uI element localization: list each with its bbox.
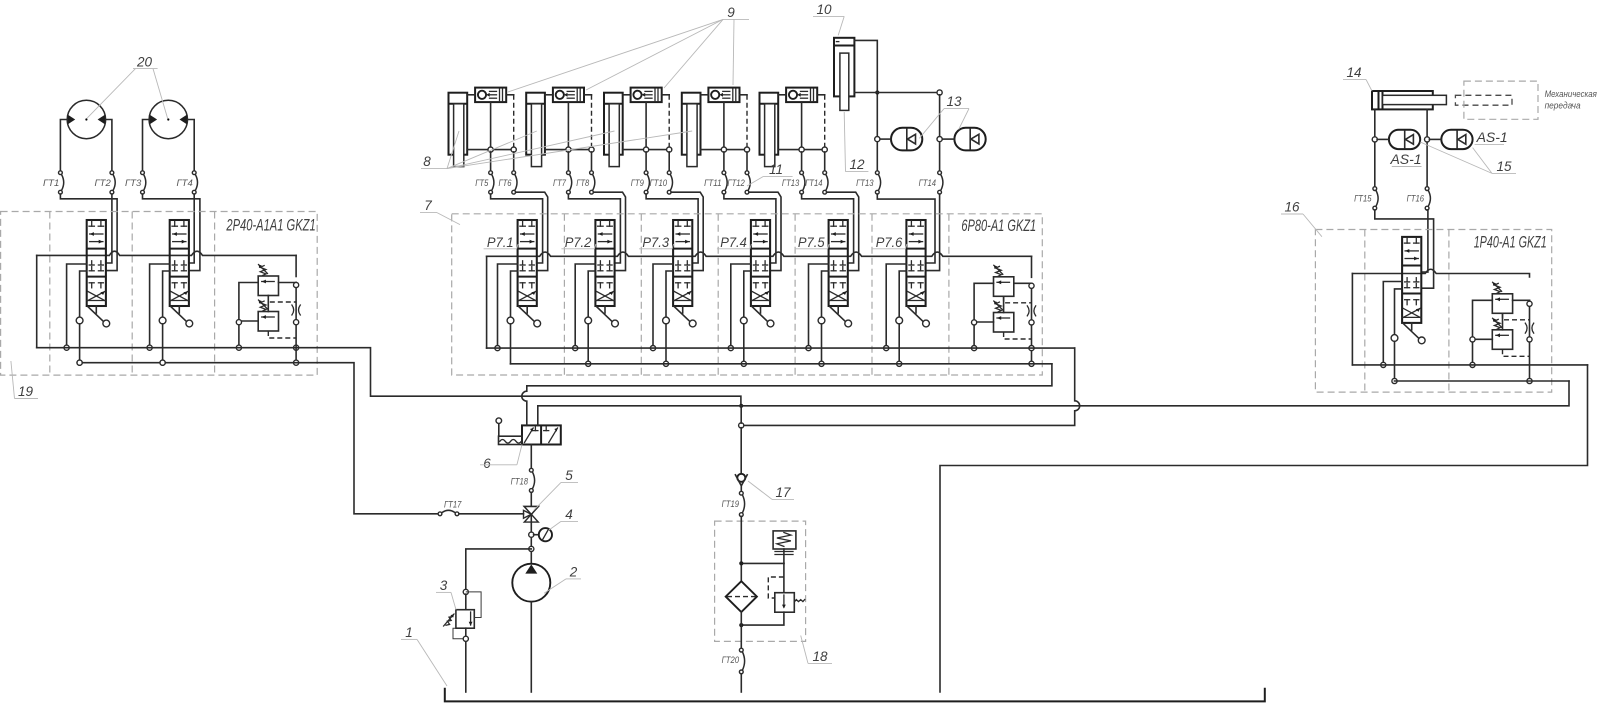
coupling ГТ4 (177, 171, 198, 194)
svg-text:ГТ13: ГТ13 (782, 178, 800, 189)
valve P7.4 lines to galleries (728, 264, 751, 366)
wire ГТ15 to valve R3 (1375, 210, 1434, 288)
labels ГТ7 ГТ8 (553, 178, 590, 189)
coupling ГТ14 (accumulator line) (919, 171, 943, 194)
dashed enclosure block 16 (1P40-A1 GKZ1) (1315, 230, 1551, 393)
svg-text:3: 3 (440, 578, 448, 593)
svg-text:1: 1 (405, 625, 413, 640)
shutoff valve 5 (524, 507, 539, 523)
coupling ГТ2 (95, 171, 116, 194)
coupling ГТ19 (722, 491, 745, 516)
relief 1P40 connections (1470, 301, 1532, 383)
svg-text:6: 6 (483, 456, 491, 471)
svg-text:ГТ2: ГТ2 (95, 178, 112, 189)
svg-text:ГТ14: ГТ14 (919, 178, 936, 189)
svg-text:ГТ7: ГТ7 (553, 178, 567, 189)
wire ГТ1 to valve R1 (60, 194, 117, 271)
wire 6P80 internal supply gallery (487, 252, 1032, 348)
dashed enclosure block 19 (2P40-A1A1 GKZ1) (1, 212, 318, 376)
wire ГТ14 to section P7.6 (926, 194, 940, 271)
svg-text:ГТ17: ГТ17 (444, 500, 462, 511)
relief 6P80 connections (972, 256, 1035, 366)
svg-text:14: 14 (1346, 65, 1361, 80)
wire ГТ2 to valve R1 (106, 194, 112, 263)
svg-text:ГТ13: ГТ13 (856, 178, 874, 189)
directional valve section P7.4 (717, 220, 774, 327)
coupling ГТ15 (1354, 187, 1378, 210)
wire ГТ20 to tank (740, 674, 742, 692)
pressure gauge 4 (534, 528, 552, 541)
labels ГТ5 ГТ6 (475, 178, 512, 189)
wire ГТ18 to shutoff valve 5 (530, 492, 532, 506)
label 7 with leader (420, 198, 460, 225)
directional valve R2 in 2P40 block (170, 220, 193, 327)
svg-text:11: 11 (769, 162, 783, 177)
wire 2P40 internal supply gallery (37, 251, 296, 348)
directional valve section P7.6 (872, 220, 929, 327)
wire 2P40 bus1 to common return (317, 348, 743, 408)
label 3 with leader (436, 578, 456, 610)
wire 6P80 bus2 to control valve 6 port A (527, 364, 1052, 386)
svg-text:6P80-A1 GKZ1: 6P80-A1 GKZ1 (961, 217, 1036, 235)
common return line to right block (741, 381, 1569, 406)
directional valve section P7.1 (484, 220, 541, 327)
label 2P40-A1A1 GKZ1 (226, 217, 316, 235)
valve P7.2 lines to galleries (573, 264, 596, 366)
hydraulic cylinder C5 (pos 8) with pilot check valve (pos 9) (760, 88, 829, 195)
directional valve R1 in 2P40 block (87, 220, 110, 327)
dashed enclosure filter unit 18 (715, 521, 806, 641)
wire valve 6 to coupling ГТ18 (530, 445, 532, 469)
wire ГТ4 to valve R2 (189, 194, 194, 263)
hydraulic cylinder C3 (pos 8) with pilot check valve (pos 9) (604, 88, 673, 195)
wire 6P80 bus1 to filter return node (739, 348, 1080, 428)
wire cylinder 14 piston-side port down (1425, 109, 1430, 186)
wire 1P40 bus1 to tank (940, 365, 1588, 692)
svg-text:ГТ12: ГТ12 (727, 178, 745, 189)
hydraulic cylinder C1 (pos 8) with pilot check valve (pos 9) (449, 88, 518, 195)
directional valve section P7.5 (795, 220, 852, 327)
wire couplings pair 2 down to section P7.2 (568, 192, 625, 270)
wire to ГТ19 (740, 486, 742, 491)
valve P7.6 lines to galleries (884, 264, 907, 366)
accumulator A2 (pos 13) (937, 128, 986, 151)
2P40 return bus (bus1) (37, 347, 318, 349)
svg-text:P7.6: P7.6 (876, 235, 903, 250)
wire 2P40 bus2 to pump line via ГТ17 (317, 363, 438, 514)
valve R1 work-port lines to gallery (64, 264, 87, 365)
directional valve section P7.2 (561, 220, 618, 327)
wire couplings pair 1 down to section P7.1 (491, 192, 548, 270)
label 9 with leaders to check valves (508, 5, 749, 92)
svg-text:5: 5 (565, 468, 573, 483)
wire valve 6 port B to common return line (538, 406, 741, 426)
label 14 with leader (1343, 65, 1372, 91)
control valve 6 (2-position, lever operated) (496, 418, 561, 445)
label Механическая передача (1545, 89, 1597, 111)
svg-text:2P40-A1A1 GKZ1: 2P40-A1A1 GKZ1 (226, 217, 316, 235)
svg-text:13: 13 (946, 94, 962, 109)
coupling ГТ1 (43, 171, 64, 194)
wire couplings pair 4 down to section P7.4 (724, 192, 781, 270)
coupling ГТ18 (511, 468, 535, 492)
svg-text:ГТ14: ГТ14 (805, 178, 822, 189)
filter element (726, 581, 757, 612)
relief valve 3 (456, 589, 474, 628)
svg-text:4: 4 (565, 507, 573, 522)
wire couplings pair 5 down to section P7.5 (802, 192, 859, 270)
svg-text:17: 17 (775, 485, 791, 500)
svg-text:ГТ19: ГТ19 (722, 499, 740, 510)
filter bypass valve with spring (739, 561, 805, 627)
dashed enclosure mechanical transmission (1464, 81, 1538, 119)
label 6P80-A1 GKZ1 (961, 217, 1036, 235)
label 20 with leaders to motors (87, 55, 168, 119)
svg-text:ГТ3: ГТ3 (125, 178, 142, 189)
wire couplings pair 3 down to section P7.3 (646, 192, 703, 270)
dashed mechanical transmission link (1455, 95, 1512, 105)
label 15 with leaders (1420, 142, 1516, 174)
svg-text:Механическая: Механическая (1545, 89, 1597, 99)
accumulator A1 (pos 13) (875, 128, 923, 151)
svg-text:ГТ4: ГТ4 (177, 178, 193, 189)
label 17 with leader (748, 481, 794, 500)
pump suction line to tank (530, 602, 532, 692)
wire 1P40 supply gallery (1352, 269, 1529, 365)
label 10 with leader (813, 2, 844, 35)
svg-text:AS-1: AS-1 (1389, 151, 1421, 167)
accumulator AS-1 left (pos 15) (1377, 130, 1421, 167)
6P80 tank bus (bus2) (511, 363, 1052, 365)
label 8 with leaders to cylinders (421, 131, 692, 169)
labels ГТ11 ГТ12 (704, 178, 745, 189)
svg-text:ГТ5: ГТ5 (475, 178, 489, 189)
wire cylinder 10 bottom port to ГТ14 (854, 90, 942, 171)
relief valve assembly in 2P40 block (239, 265, 300, 339)
svg-text:P7.2: P7.2 (565, 235, 592, 250)
directional valve R3 in 1P40 block (1402, 237, 1425, 344)
svg-text:2: 2 (569, 565, 578, 580)
2P40 tank bus (bus2) (77, 360, 317, 365)
svg-text:20: 20 (136, 55, 153, 70)
label 12 with leader (844, 112, 868, 172)
svg-text:15: 15 (1496, 159, 1512, 174)
valve R2 work-port lines to gallery (147, 264, 170, 365)
label 6 with leader (480, 445, 522, 472)
wire cylinder 10 head port to ГТ13 (854, 40, 879, 170)
plunger cylinder (pos 10/12) (834, 38, 854, 111)
wire valve 6 port A up to bus (522, 386, 527, 426)
wire cylinder 14 rod-side port down (1372, 109, 1377, 186)
svg-text:ГТ20: ГТ20 (722, 655, 740, 666)
label 11 with leader (747, 162, 793, 186)
svg-text:19: 19 (18, 384, 34, 399)
svg-text:P7.5: P7.5 (798, 235, 825, 250)
relief 3 internals (444, 592, 482, 692)
valve P7.1 lines to galleries (495, 264, 518, 364)
svg-text:ГТ15: ГТ15 (1354, 194, 1372, 205)
svg-text:P7.3: P7.3 (642, 235, 669, 250)
svg-text:ГТ9: ГТ9 (631, 178, 645, 189)
check valve 17 (735, 474, 747, 486)
svg-text:P7.1: P7.1 (487, 235, 514, 250)
coupling ГТ13 (accumulator line) (856, 171, 881, 194)
hydraulic motor M1 (pos 20) (67, 100, 105, 138)
wire ГТ13 to section P7.6 (877, 194, 935, 263)
label 4 with leader (549, 507, 578, 530)
6P80 return bus (bus1) (487, 347, 1075, 349)
relief valve assembly in 1P40 block (1473, 282, 1534, 356)
label 5 with leader (534, 468, 578, 510)
svg-text:10: 10 (816, 2, 832, 17)
svg-text:P7.4: P7.4 (720, 235, 747, 250)
label 2 with leader (544, 565, 581, 594)
labels ГТ9 ГТ10 (631, 178, 668, 189)
valve R3 lines to galleries (1381, 282, 1402, 384)
svg-text:ГТ10: ГТ10 (650, 178, 668, 189)
label 13 with leaders (919, 94, 969, 138)
wire filter to ГТ20 (740, 612, 742, 648)
1P40 tank bus (bus2) (1395, 380, 1570, 382)
label 19 with leader (11, 361, 38, 399)
relief 2P40 connections to buses (236, 255, 298, 365)
svg-text:ГТ18: ГТ18 (511, 477, 529, 488)
svg-text:9: 9 (727, 5, 735, 20)
svg-text:передача: передача (1545, 101, 1581, 111)
pump 2 (512, 564, 550, 602)
wire ГТ19 through filter (740, 517, 742, 582)
label 1P40-A1 GKZ1 (1474, 233, 1547, 251)
directional valve section P7.3 (639, 220, 696, 327)
svg-text:16: 16 (1284, 200, 1300, 215)
hydraulic motor M2 (pos 20) (149, 100, 187, 138)
accumulator AS-1 right (pos 15) (1429, 129, 1507, 149)
dashed enclosure block 7 (6P80-A1 GKZ1) (452, 214, 1043, 375)
wire ГТ16 to valve R3 (1421, 210, 1428, 272)
hydraulic cylinder 14 (1372, 91, 1446, 109)
svg-text:ГТ1: ГТ1 (43, 178, 59, 189)
labels ГТ13 ГТ14 (782, 178, 823, 189)
svg-text:7: 7 (424, 198, 432, 213)
svg-text:1P40-A1 GKZ1: 1P40-A1 GKZ1 (1474, 233, 1547, 251)
wire return node down to check valve 17 (740, 406, 742, 474)
1P40 return bus (bus1) (1352, 364, 1587, 366)
svg-text:ГТ16: ГТ16 (1407, 194, 1425, 205)
svg-text:AS-1: AS-1 (1476, 129, 1508, 145)
coupling ГТ3 (125, 171, 146, 194)
valve P7.5 lines to galleries (806, 264, 829, 366)
coupling ГТ17 (438, 500, 523, 516)
svg-text:12: 12 (849, 157, 865, 172)
wire motor M2 ports down (143, 120, 195, 171)
wire valve 5 to gauge node and pump (529, 514, 534, 563)
label 1 with leader (401, 625, 447, 686)
tank (pos 1) (445, 688, 1265, 702)
label 16 with leader (1281, 200, 1322, 237)
svg-text:ГТ11: ГТ11 (704, 178, 721, 189)
filter spring-loaded element (773, 531, 796, 564)
wire motor M1 ports down (60, 120, 112, 171)
wire ГТ3 to valve R2 (143, 194, 200, 271)
svg-text:18: 18 (812, 649, 828, 664)
coupling ГТ20 (722, 648, 745, 674)
svg-text:ГТ6: ГТ6 (499, 178, 513, 189)
valve P7.3 lines to galleries (650, 264, 673, 366)
hydraulic cylinder C4 (pos 8) with pilot check valve (pos 9) (682, 88, 751, 195)
hydraulic cylinder C2 (pos 8) with pilot check valve (pos 9) (526, 88, 595, 195)
branch to relief valve 3 (466, 549, 532, 590)
svg-text:ГТ8: ГТ8 (576, 178, 590, 189)
label 18 with leader (801, 636, 832, 665)
relief valve assembly in 6P80 block (974, 265, 1036, 339)
coupling ГТ16 (1407, 187, 1431, 210)
svg-text:8: 8 (423, 154, 431, 169)
